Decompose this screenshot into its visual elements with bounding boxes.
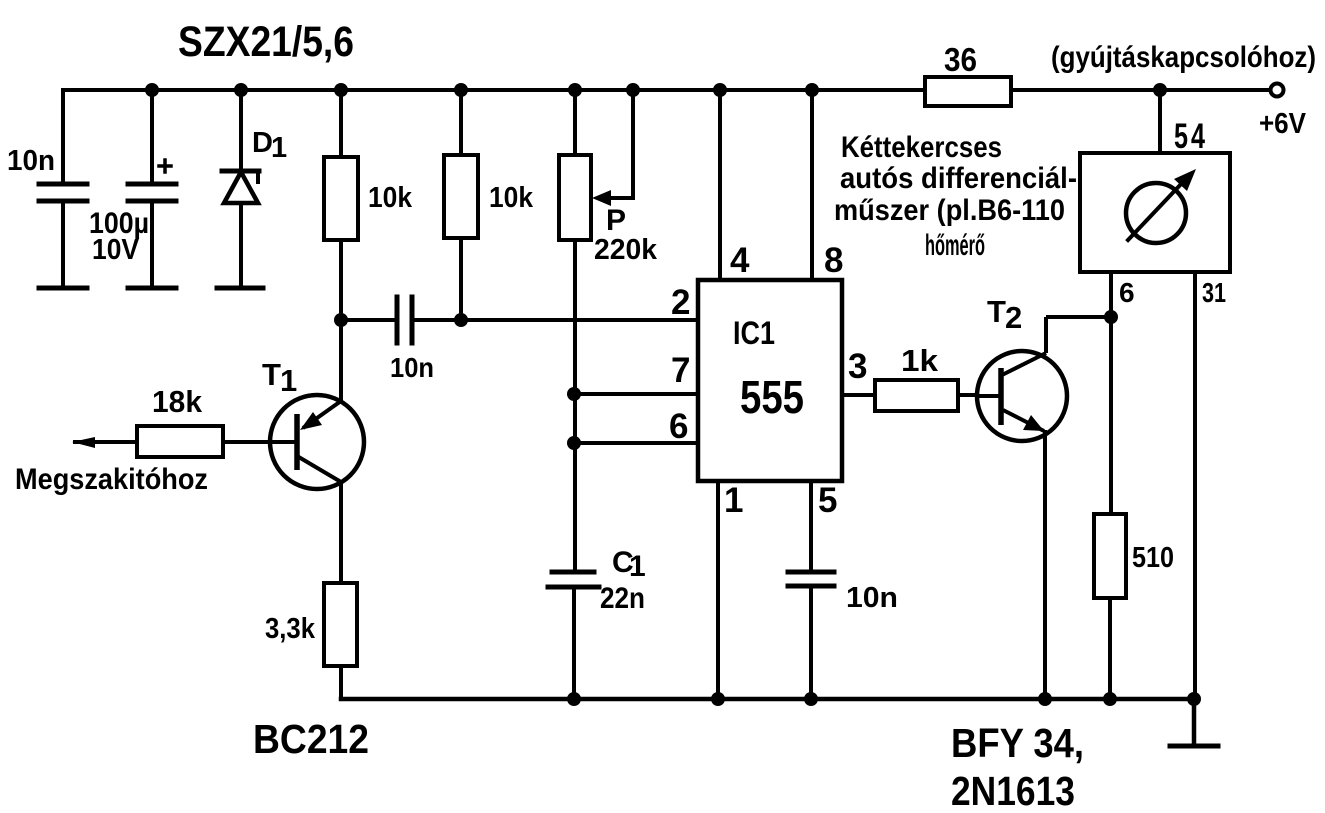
wire pin 4: [718, 90, 722, 280]
svg-text:6: 6: [1119, 277, 1135, 308]
svg-text:10n: 10n: [390, 352, 434, 383]
wire bottom ground rail: [341, 697, 1194, 702]
svg-text:10n: 10n: [7, 145, 55, 177]
wire meter pin 6 down: [1109, 272, 1113, 514]
svg-text:18k: 18k: [152, 384, 203, 419]
resistor 18k: [72, 426, 223, 457]
svg-text:4: 4: [1191, 117, 1205, 156]
capacitor 10n coupling: [341, 297, 461, 343]
ground symbol: [1170, 699, 1218, 746]
resistor 10k (first): [324, 90, 358, 320]
svg-text:T: T: [262, 357, 281, 392]
potentiometer P 220k: [559, 90, 633, 570]
svg-text:2: 2: [1005, 300, 1022, 335]
resistor 1k: [875, 380, 977, 411]
wire pin 7: [574, 392, 698, 396]
svg-text:1: 1: [271, 132, 287, 164]
meter M differential instrument box: [1080, 153, 1230, 272]
svg-text:1: 1: [280, 363, 297, 398]
svg-text:SZX21/5,6: SZX21/5,6: [178, 18, 354, 66]
svg-text:BC212: BC212: [253, 716, 369, 762]
svg-text:1: 1: [629, 550, 646, 583]
svg-text:P: P: [606, 204, 626, 237]
wire pin 3: [842, 393, 875, 397]
svg-text:T: T: [987, 294, 1006, 329]
svg-text:hőmérő: hőmérő: [925, 229, 985, 262]
terminal +6V open circle: [1271, 84, 1284, 97]
wire meter terminal 54: [1158, 90, 1162, 153]
transistor T2 NPN BFY34: [977, 317, 1111, 699]
svg-text:autós differenciál-: autós differenciál-: [840, 162, 1077, 195]
svg-text:+6V: +6V: [1259, 108, 1307, 140]
wire meter pin 31 down: [1193, 272, 1197, 699]
node junction dots middle: [334, 310, 1118, 450]
wire top supply rail right segment: [1011, 88, 1271, 92]
capacitor C 100µ 10V electrolytic: [128, 90, 176, 288]
resistor 36: [925, 77, 1011, 106]
svg-text:műszer (pl.B6-110: műszer (pl.B6-110: [834, 194, 1065, 227]
svg-text:31: 31: [1202, 277, 1226, 308]
svg-text:1: 1: [724, 481, 743, 520]
svg-text:Kéttekercses: Kéttekercses: [841, 131, 1002, 164]
svg-text:8: 8: [824, 241, 843, 280]
wire to pin 2: [461, 318, 698, 322]
svg-text:3: 3: [848, 347, 867, 386]
node junction dots top rail: [145, 83, 1167, 97]
resistor 10k (second): [444, 90, 478, 320]
svg-text:BFY 34,: BFY 34,: [951, 720, 1084, 766]
wire top supply rail left segment: [63, 88, 925, 92]
wire pin 5: [809, 481, 813, 570]
svg-text:555: 555: [740, 371, 804, 423]
svg-text:6: 6: [669, 407, 688, 446]
svg-text:5: 5: [818, 481, 837, 520]
resistor 510: [1094, 514, 1126, 699]
svg-text:2: 2: [671, 283, 690, 322]
wire pin 8: [810, 90, 814, 280]
resistor 3,3k: [324, 583, 357, 699]
svg-text:7: 7: [671, 351, 690, 390]
svg-text:2N1613: 2N1613: [951, 768, 1075, 813]
svg-text:(gyújtáskapcsolóhoz): (gyújtáskapcsolóhoz): [1051, 41, 1316, 74]
svg-text:510: 510: [1132, 542, 1174, 574]
svg-text:22n: 22n: [600, 582, 645, 615]
svg-text:1k: 1k: [901, 343, 939, 378]
svg-text:4: 4: [730, 241, 750, 280]
svg-text:10V: 10V: [92, 234, 140, 266]
svg-text:36: 36: [944, 41, 977, 78]
op-amp IC1 555 timer box: [698, 280, 842, 481]
svg-text:IC1: IC1: [733, 315, 775, 351]
svg-text:Megszakitóhoz: Megszakitóhoz: [15, 463, 208, 496]
svg-text:5: 5: [1174, 117, 1188, 156]
svg-text:D: D: [252, 127, 273, 159]
capacitor 10n (left): [39, 90, 87, 288]
svg-text:220k: 220k: [594, 234, 658, 266]
capacitor C1 22n: [548, 572, 599, 699]
svg-text:10k: 10k: [489, 182, 534, 214]
diode D1 zener: [217, 90, 263, 288]
svg-text:10k: 10k: [368, 182, 413, 214]
wire pin 6: [574, 441, 698, 445]
node junction dots bottom rail: [567, 692, 1201, 706]
capacitor 10n at pin 5: [788, 572, 834, 699]
svg-text:10n: 10n: [846, 582, 898, 614]
svg-text:3,3k: 3,3k: [265, 613, 316, 645]
transistor T1 PNP BC212: [223, 320, 364, 583]
wire pin 1: [716, 481, 720, 699]
